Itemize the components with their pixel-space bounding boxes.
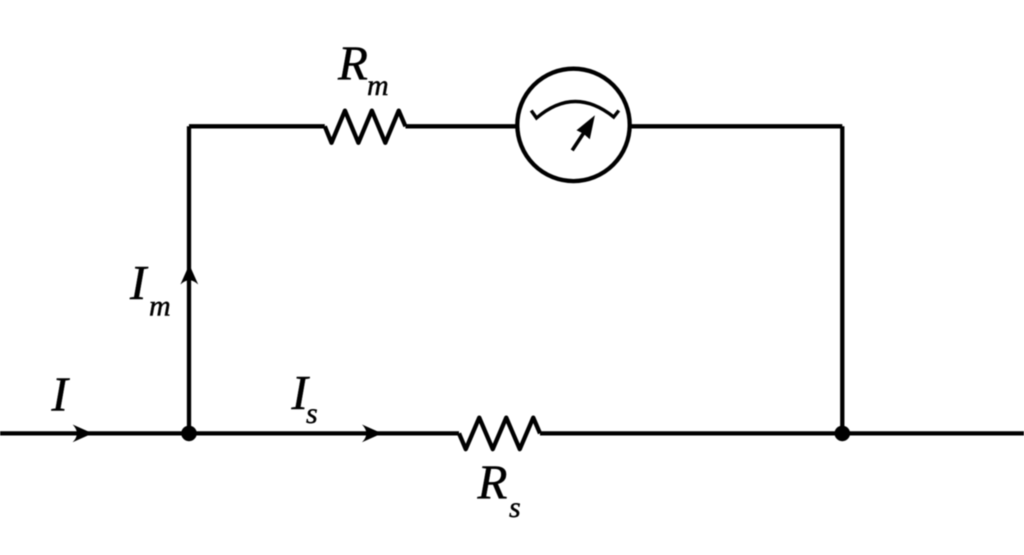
wire: right vertical branch <box>840 126 844 433</box>
resistor R_s zigzag <box>459 418 540 450</box>
current arrow I on bottom rail <box>73 425 93 443</box>
label R_m <box>337 36 389 103</box>
svg-text:I: I <box>51 367 71 422</box>
label I_m <box>129 255 171 322</box>
current arrow I_s on bottom rail <box>362 425 382 443</box>
current arrow I_m on left vertical branch (pointing up) <box>180 265 198 285</box>
meter needle arrowhead <box>577 115 595 139</box>
svg-text:I: I <box>129 255 149 310</box>
wire: top rail from R_m to meter <box>405 124 517 128</box>
wire: top rail from left corner to R_m <box>189 124 325 128</box>
svg-text:s: s <box>509 491 521 524</box>
svg-text:m: m <box>367 69 389 102</box>
junction node dot right <box>835 426 851 442</box>
resistor R_m zigzag <box>325 111 406 143</box>
wire: bottom rail left segment (input) <box>0 431 459 435</box>
junction node dot left <box>181 426 197 442</box>
svg-text:R: R <box>337 36 368 91</box>
label R_s <box>477 455 521 525</box>
label I (input current) <box>51 367 71 422</box>
svg-text:m: m <box>149 289 171 322</box>
label I_s <box>291 365 318 430</box>
wire: bottom rail right segment <box>540 431 1024 435</box>
meter (galvanometer) circle <box>517 69 629 181</box>
meter needle shaft <box>572 133 584 151</box>
wire: left vertical branch <box>187 126 191 433</box>
svg-text:R: R <box>477 455 508 510</box>
svg-text:s: s <box>306 397 318 430</box>
wire: top rail from meter to right corner <box>631 124 843 128</box>
meter scale arc with end ticks <box>531 101 619 118</box>
